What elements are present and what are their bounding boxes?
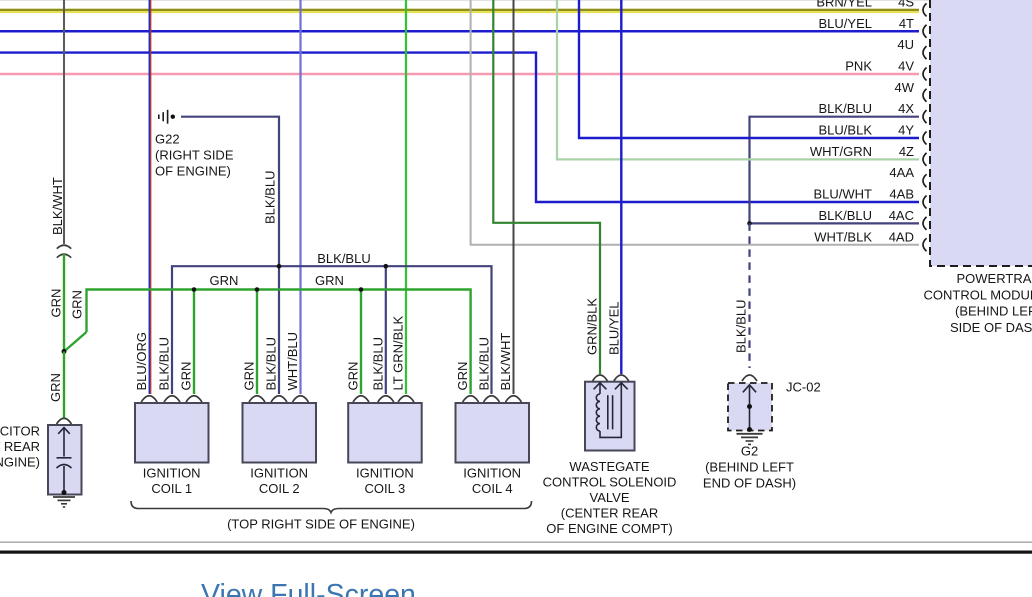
svg-text:4AB: 4AB [889, 187, 914, 202]
svg-text:GRN: GRN [48, 373, 63, 402]
pin arc JC-02 [742, 375, 757, 381]
wire BRN/YEL 4S [0, 9, 919, 13]
svg-text:WASTEGATE: WASTEGATE [569, 459, 650, 474]
label wastegate [543, 459, 677, 536]
wire GRN diagonal to junction [64, 332, 87, 352]
junction dot bus BLK/BLU coil 3 [384, 264, 389, 269]
svg-text:COIL 1: COIL 1 [151, 481, 192, 496]
svg-text:VALVE: VALVE [590, 490, 630, 505]
svg-text:WHT/BLK: WHT/BLK [814, 229, 872, 244]
pin arcs coil 3 [353, 396, 414, 402]
svg-text:(CENTER REAR: (CENTER REAR [561, 506, 659, 521]
svg-text:BLK/BLU: BLK/BLU [477, 337, 492, 390]
pin arcs coil 1 [141, 396, 202, 402]
pin arcs coil 4 [463, 396, 522, 402]
svg-text:4Z: 4Z [899, 144, 914, 159]
svg-text:BLK/BLU: BLK/BLU [371, 337, 386, 390]
label capacitor [0, 424, 40, 470]
svg-text:BLU/YEL: BLU/YEL [607, 302, 622, 355]
svg-text:BLK/WHT: BLK/WHT [50, 177, 65, 235]
svg-text:GRN/BLK: GRN/BLK [585, 298, 600, 355]
ignition coil 3 [348, 403, 422, 496]
wire BLK/WHT to break [63, 0, 65, 244]
wire GRN bus drop to coil 2 [256, 290, 258, 395]
bus GRN coils [87, 290, 471, 395]
svg-text:(BEHIND LEFT: (BEHIND LEFT [955, 304, 1032, 319]
svg-text:(TOP RIGHT SIDE OF ENGINE): (TOP RIGHT SIDE OF ENGINE) [227, 517, 415, 532]
pin arcs coil 2 [249, 396, 309, 402]
svg-text:BLK/BLU: BLK/BLU [317, 251, 370, 266]
ground G2 [737, 434, 763, 445]
svg-text:WHT/GRN: WHT/GRN [810, 144, 872, 159]
svg-text:4AC: 4AC [889, 208, 914, 223]
svg-text:BLK/BLU: BLK/BLU [819, 208, 872, 223]
junction dot GRN coil 2 [255, 287, 260, 292]
svg-text:SIDE OF DASH): SIDE OF DASH) [950, 320, 1032, 335]
svg-text:GRN: GRN [49, 289, 64, 318]
svg-text:BLU/BLK: BLU/BLK [819, 123, 873, 138]
ignition coil 2 [243, 403, 317, 496]
svg-text:OF ENGINE COMPT): OF ENGINE COMPT) [546, 521, 672, 536]
svg-text:IGNITION: IGNITION [250, 466, 308, 481]
capacitor bottom dot [62, 490, 67, 495]
bus BLK/BLU coils [172, 266, 492, 394]
svg-text:WHT/BLU: WHT/BLU [285, 332, 300, 391]
wire GRN bus drop to coil 3 [360, 290, 362, 395]
wire WHT/BLK 4AD [471, 0, 919, 245]
wire BLK/BLU 4X [750, 117, 920, 224]
PCM connector module box [930, 0, 1032, 266]
ignition coil 4 [456, 403, 530, 496]
svg-text:PNK: PNK [845, 58, 872, 73]
label G2 [703, 443, 796, 490]
svg-text:GRN: GRN [70, 290, 85, 319]
junction dot 4AC [747, 221, 752, 226]
svg-text:BRN/YEL: BRN/YEL [816, 0, 872, 9]
svg-text:(BEHIND LEFT: (BEHIND LEFT [705, 459, 794, 474]
svg-text:G2: G2 [741, 443, 758, 458]
arrows wastegate pins [594, 383, 628, 390]
JC-02 internal dots [747, 404, 752, 409]
pin labels PCM [810, 0, 915, 244]
wire GRN bus drop to coil 1 [193, 290, 195, 395]
svg-text:G22: G22 [155, 132, 180, 147]
svg-text:BLK/BLU: BLK/BLU [734, 300, 749, 353]
svg-text:BLU/WHT: BLU/WHT [814, 187, 873, 202]
svg-text:4U: 4U [897, 37, 914, 52]
wire BLU/BLK 4Y [579, 0, 919, 138]
svg-text:CONTROL SOLENOID: CONTROL SOLENOID [543, 475, 677, 490]
svg-text:(RIGHT SIDE: (RIGHT SIDE [155, 148, 234, 163]
top edge line [0, 0, 1032, 1]
wire PNK 4V [0, 73, 919, 76]
ground capacitor [53, 497, 75, 507]
ignition coil 1 [135, 403, 209, 496]
svg-text:BLK/BLU: BLK/BLU [263, 171, 278, 224]
svg-text:GRN: GRN [346, 362, 361, 391]
wire GRN/BLK to wastegate [493, 0, 600, 374]
svg-text:BLK/BLU: BLK/BLU [157, 337, 172, 390]
wire BLU/YEL 4T [0, 30, 919, 33]
wire BLK/BLU bus drop to coil 3 [385, 266, 387, 394]
svg-text:BLU/ORG: BLU/ORG [134, 332, 149, 391]
svg-text:GRN: GRN [179, 362, 194, 391]
wire WHT/BLU vertical to coil 2 [299, 0, 301, 394]
wire BLK/WHT vertical to coil 4 [513, 0, 515, 394]
svg-text:4T: 4T [899, 16, 914, 31]
svg-text:4X: 4X [898, 101, 914, 116]
wire WHT/GRN 4Z [557, 0, 919, 159]
pin arc capacitor [57, 418, 72, 424]
PCM pin arcs [923, 3, 927, 251]
junction dot GRN coil 3 [359, 287, 364, 292]
label G22 [155, 132, 234, 179]
svg-text:GRN: GRN [315, 273, 344, 288]
wire BLK/BLU from G22 to coil 2 [181, 117, 279, 394]
svg-text:View Full-Screen: View Full-Screen [201, 579, 416, 597]
junction dot GRN coil 1 [192, 287, 197, 292]
junction dot bus BLK/BLU at G22 drop [277, 264, 282, 269]
bottom separator thick [0, 551, 1032, 554]
svg-text:LT GRN/BLK: LT GRN/BLK [391, 316, 406, 391]
wire BLK/BLU 4AC [750, 222, 920, 224]
JC-02 internal wire [743, 385, 756, 430]
svg-text:END OF DASH): END OF DASH) [703, 475, 796, 490]
svg-text:BLK/WHT: BLK/WHT [498, 333, 513, 391]
svg-text:BLK/BLU: BLK/BLU [819, 101, 872, 116]
svg-text:4AD: 4AD [889, 229, 914, 244]
wire GRN break to junction [63, 254, 65, 352]
svg-text:OF ENGINE): OF ENGINE) [0, 454, 40, 469]
svg-text:BLK/BLU: BLK/BLU [264, 337, 279, 390]
junction dot GRN capacitor [62, 349, 67, 354]
svg-text:GRN: GRN [210, 273, 239, 288]
wire GRN junction to capacitor [63, 352, 65, 418]
wastegate coil internals [596, 384, 621, 438]
capacitor internals [57, 428, 72, 493]
wire BLU/YEL vertical to wastegate [620, 0, 622, 374]
svg-text:4S: 4S [898, 0, 914, 9]
svg-text:4Y: 4Y [898, 123, 914, 138]
label PCM [924, 271, 1032, 335]
bottom separator thin [0, 542, 1032, 543]
svg-text:CONTROL MODULE: CONTROL MODULE [924, 287, 1032, 302]
wire BLK/BLU dashed to JC-02 [748, 223, 750, 368]
junction connector JC-02 [728, 383, 772, 431]
svg-text:4AA: 4AA [889, 165, 914, 180]
svg-text:4W: 4W [895, 80, 915, 95]
svg-text:IGNITION: IGNITION [356, 466, 414, 481]
svg-text:COIL 3: COIL 3 [365, 481, 406, 496]
capacitor component [48, 425, 82, 495]
svg-text:OF ENGINE): OF ENGINE) [155, 164, 231, 179]
pin arcs wastegate [593, 375, 629, 381]
connector break BLK/WHT-GRN [57, 245, 71, 258]
svg-text:COIL 4: COIL 4 [472, 481, 513, 496]
svg-text:CAPACITOR: CAPACITOR [0, 424, 40, 439]
wastegate control solenoid valve [585, 382, 635, 451]
svg-text:4V: 4V [898, 58, 914, 73]
wire BLU/WHT 4AB from left [0, 53, 919, 202]
wire BLU/ORG vertical to coil 1 [149, 0, 150, 394]
ground G22 [159, 110, 175, 124]
brace coils [131, 501, 532, 513]
wire LT GRN/BLK vertical to coil 3 [405, 0, 407, 394]
svg-text:JC-02: JC-02 [786, 380, 821, 395]
svg-text:IGNITION: IGNITION [143, 466, 201, 481]
svg-text:(LEFT REAR: (LEFT REAR [0, 439, 40, 454]
svg-text:GRN: GRN [455, 362, 470, 391]
svg-text:COIL 2: COIL 2 [259, 481, 300, 496]
svg-text:IGNITION: IGNITION [463, 466, 521, 481]
svg-text:BLU/YEL: BLU/YEL [819, 16, 872, 31]
svg-text:POWERTRAIN: POWERTRAIN [957, 271, 1032, 286]
svg-text:GRN: GRN [242, 362, 257, 391]
